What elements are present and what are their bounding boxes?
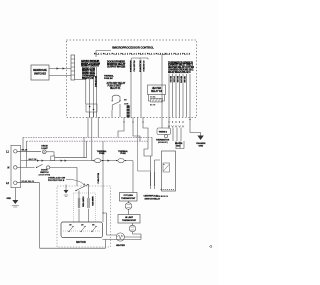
svg-text:WH-876: WH-876 [180, 76, 182, 84]
svg-text:THERM 2: THERM 2 [159, 132, 167, 134]
svg-text:FUSE: FUSE [120, 153, 126, 155]
svg-text:GY-434: GY-434 [173, 76, 176, 83]
svg-text:SWITCH RELAY: SWITCH RELAY [145, 197, 161, 200]
svg-text:RD-22 WH-21 BK-42 4: RD-22 WH-21 BK-42 4 [168, 71, 191, 74]
svg-text:BK-28: BK-28 [22, 150, 29, 152]
svg-text:GY-432 RD-8: GY-432 RD-8 [142, 61, 145, 73]
svg-text:5 6 7 8: 5 6 7 8 [150, 105, 155, 107]
svg-text:(DOOR OPEN): (DOOR OPEN) [39, 174, 51, 176]
svg-text:LIGHT: LIGHT [41, 148, 48, 150]
svg-text:CYCLING: CYCLING [124, 195, 134, 197]
svg-text:RELAY K4: RELAY K4 [151, 90, 163, 93]
svg-text:BK/GY 1 W: BK/GY 1 W [82, 77, 94, 80]
svg-text:COM: COM [124, 104, 129, 106]
svg-text:BK-12 WH-3: BK-12 WH-3 [96, 173, 98, 184]
svg-text:HEATER: HEATER [116, 244, 125, 247]
svg-text:MAIN WDG: MAIN WDG [91, 197, 94, 207]
svg-text:FUSE: FUSE [99, 153, 105, 155]
svg-text:THERMOSTAT: THERMOSTAT [121, 197, 136, 200]
svg-text:HEATER: HEATER [152, 87, 162, 90]
svg-text:RD-213: RD-213 [169, 76, 171, 83]
svg-text:THERMOSTAT: THERMOSTAT [122, 219, 137, 222]
svg-text:BK-128 WH2: BK-128 WH2 [94, 76, 96, 88]
svg-text:SWITCHES: SWITCHES [34, 73, 47, 75]
svg-text:BK-214 WH-6: BK-214 WH-6 [138, 61, 141, 73]
svg-text:(EXHAUST): (EXHAUST) [158, 141, 168, 144]
svg-text:OUTPUT WH-22B: OUTPUT WH-22B [107, 66, 125, 69]
svg-text:START WDG: START WDG [82, 197, 85, 208]
svg-text:BELT SW: BELT SW [29, 159, 37, 161]
svg-text:RD-125 GY-2: RD-125 GY-2 [133, 61, 135, 73]
svg-text:HTR BOX K3: HTR BOX K3 [157, 196, 168, 198]
svg-text:MOTOR: MOTOR [76, 240, 86, 244]
svg-text:PROTECTOR B: PROTECTOR B [48, 180, 65, 182]
svg-text:P1-1 1 P1-2 1 P1-4 1 P2-1 1 P2: P1-1 1 P1-2 1 P1-4 1 P2-1 1 P2-3 1 P2-5 … [94, 53, 191, 56]
svg-text:RD-65 WH-12: RD-65 WH-12 [22, 181, 35, 183]
svg-text:1 2 3 4: 1 2 3 4 [150, 96, 155, 99]
svg-text:HI LIMIT: HI LIMIT [125, 217, 134, 219]
svg-text:WH-281 BK-4: WH-281 BK-4 [129, 61, 132, 73]
svg-text:¶MICROPROCESSOR CONTROL: ¶MICROPROCESSOR CONTROL [112, 46, 154, 50]
svg-text:GRD: GRD [7, 198, 12, 200]
svg-text:RELAY K1: RELAY K1 [110, 87, 121, 90]
svg-text:FUSE BK: FUSE BK [104, 78, 113, 80]
svg-text:N: N [8, 167, 10, 170]
svg-text:-1: -1 [209, 245, 212, 249]
svg-text:BK-655: BK-655 [176, 76, 178, 83]
svg-text:MEMBRANE: MEMBRANE [33, 69, 47, 72]
svg-text:OR-398: OR-398 [183, 76, 185, 83]
svg-text:GRD: GRD [198, 146, 203, 148]
